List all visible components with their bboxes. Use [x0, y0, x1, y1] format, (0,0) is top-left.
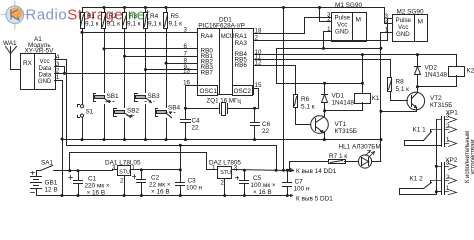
wire DD1 pin18 RA1 to M1 Pulse — [259, 18, 327, 34]
+12V line to DA1 — [58, 170, 113, 172]
capacitor C1 — [69, 171, 83, 198]
svg-text:22 мк ×: 22 мк × — [149, 182, 171, 189]
svg-text:SB4: SB4 — [168, 104, 181, 111]
wire +12V riser to DA2 input — [70, 153, 213, 171]
pushbutton SB1 — [94, 94, 110, 140]
svg-text:K2: K2 — [467, 68, 474, 75]
XP2 pin 3 — [437, 164, 457, 170]
relay coil K1 — [355, 94, 371, 104]
relay contact K1.1 — [405, 130, 442, 146]
wire DD1 pin11 RB5 to R8 — [259, 60, 391, 78]
resistor R5 — [164, 6, 168, 108]
svg-text:K1 2: K1 2 — [410, 175, 424, 182]
svg-text:1: 1 — [56, 74, 60, 81]
XP1 pin 3 — [437, 117, 457, 123]
svg-text:2: 2 — [120, 179, 124, 185]
switch SA1 — [37, 166, 58, 171]
resistor R4 — [144, 6, 148, 93]
capacitor C7 — [283, 169, 292, 197]
svg-text:C1: C1 — [88, 176, 97, 183]
wire OSC1 to crystal — [186, 108, 220, 110]
svg-text:VT1: VT1 — [335, 121, 347, 128]
svg-text:STU: STU — [119, 170, 130, 176]
relay coil K2 — [449, 67, 465, 77]
svg-text:MCU: MCU — [221, 34, 235, 40]
svg-text:5,1 к: 5,1 к — [396, 86, 410, 93]
svg-text:C3: C3 — [188, 178, 197, 185]
svg-text:DA1 L78L05: DA1 L78L05 — [105, 159, 141, 166]
wire XP1 pin3 to XP2 pin3 — [436, 120, 438, 195]
module A1 box — [21, 54, 56, 90]
wire DD1 pin2 RA3 to M2 Pulse — [259, 19, 389, 41]
XP2 pin 1 — [445, 190, 457, 195]
svg-text:RA4: RA4 — [201, 33, 214, 40]
wire A1 Vcc pin4 to +5V riser — [61, 60, 67, 146]
crystal ZQ1 — [220, 103, 228, 116]
XP1 pin 1 — [445, 141, 457, 147]
svg-text:Vcc: Vcc — [337, 22, 347, 29]
DA2 +5V output line — [233, 170, 289, 171]
svg-text:× 16 В: × 16 В — [151, 189, 170, 196]
svg-text:R5: R5 — [171, 13, 180, 20]
wire HL1 riser — [289, 162, 291, 171]
svg-text:100 н: 100 н — [294, 186, 310, 193]
svg-text:SA1: SA1 — [41, 160, 54, 167]
svg-text:GND: GND — [396, 31, 410, 38]
svg-text:9,1 к: 9,1 к — [169, 21, 183, 28]
wire R5 to DD1 pin8 RB2 — [167, 63, 198, 65]
capacitor C6 — [251, 107, 260, 141]
servo gnd bus — [277, 48, 381, 50]
wire R3 to DD1 pin7 RB1 — [125, 56, 198, 58]
svg-text:RX: RX — [23, 60, 33, 67]
svg-text:9,1 к: 9,1 к — [107, 21, 121, 28]
minus bottom rail — [37, 195, 288, 197]
voltage regulator DA2 — [213, 167, 237, 198]
pushbutton SB2 — [114, 109, 131, 140]
svg-text:Pulse: Pulse — [396, 17, 412, 24]
wire M2 GND long vertical to gnd and LED line — [381, 33, 389, 162]
wire +5V rail end to M2 Vcc — [383, 8, 389, 24]
voltage regulator DA1 — [113, 166, 136, 198]
arrow to pin14 DD1 — [289, 169, 294, 172]
pushbutton SB4 — [156, 109, 172, 140]
servo module M2 box — [393, 15, 428, 42]
svg-text:1N4148: 1N4148 — [425, 71, 448, 78]
resistor R8 — [388, 78, 392, 92]
capacitor C5 — [236, 171, 249, 198]
capacitor C2 — [133, 168, 146, 197]
svg-text:6: 6 — [184, 43, 188, 50]
svg-text:4: 4 — [56, 54, 60, 61]
svg-text:1N4148: 1N4148 — [332, 100, 355, 107]
svg-text:13: 13 — [183, 68, 190, 75]
svg-text:Pulse: Pulse — [335, 15, 351, 22]
MCU DD1 box — [198, 29, 254, 95]
svg-text:22: 22 — [262, 128, 270, 135]
arrow to pin5 DD1 — [288, 195, 293, 197]
XP2 pin 2 — [431, 178, 457, 184]
svg-text:C5: C5 — [253, 175, 262, 182]
svg-text:Data: Data — [39, 72, 52, 78]
resistor R1 — [81, 8, 85, 105]
svg-text:22: 22 — [192, 125, 200, 132]
svg-text:VD1: VD1 — [332, 93, 345, 100]
resistor R2 — [102, 6, 106, 93]
pushbutton SB3 — [135, 94, 152, 140]
svg-text:STU: STU — [220, 170, 231, 176]
battery GB1 — [31, 171, 42, 196]
transistor VT1 — [311, 111, 329, 142]
LED row line — [290, 161, 381, 163]
wire R6 to VT1 base — [296, 108, 311, 125]
node HL1 feed riser — [288, 169, 291, 172]
svg-text:K1 1: K1 1 — [413, 127, 427, 134]
+5V#1 distribution line — [67, 146, 277, 171]
wire crystal to OSC2 riser — [228, 89, 259, 109]
svg-text:C2: C2 — [151, 175, 160, 182]
svg-text:15: 15 — [255, 82, 262, 89]
DA1 +5V output line — [136, 169, 181, 171]
switch S1 — [78, 105, 84, 140]
wire A1 data bus to DD1 pin13 — [63, 73, 198, 75]
svg-text:12 В: 12 В — [45, 187, 58, 194]
svg-text:WA1: WA1 — [3, 40, 17, 47]
LED HL1 — [358, 151, 374, 169]
svg-text:C6: C6 — [262, 121, 271, 128]
antenna WA1 — [6, 47, 21, 70]
DD1 pin16 OSC1 wire — [186, 86, 198, 120]
svg-text:9,1 к: 9,1 к — [127, 21, 141, 28]
svg-text:S1: S1 — [86, 109, 94, 116]
svg-text:2: 2 — [221, 181, 225, 187]
M1 pin stubs — [327, 18, 332, 32]
svg-text:OSC1: OSC1 — [200, 88, 218, 95]
svg-text:Data: Data — [39, 66, 52, 72]
DD1 right pin stubs — [254, 34, 259, 66]
svg-text:устройствам: устройствам — [470, 139, 474, 174]
resistor R7 — [329, 160, 346, 164]
node C1 tap — [77, 169, 80, 172]
svg-text:1: 1 — [327, 27, 331, 33]
wire R8 to VT2 base — [391, 92, 408, 101]
diode VD1 — [322, 84, 328, 111]
svg-text:9,1 к: 9,1 к — [85, 21, 99, 28]
svg-text:× 16 В: × 16 В — [87, 190, 106, 197]
svg-text:SB1: SB1 — [107, 93, 120, 100]
svg-text:× 16 В: × 16 В — [253, 189, 272, 196]
capacitor C3 — [176, 170, 185, 198]
svg-text:R8: R8 — [396, 79, 405, 86]
wire DD1 pin12 RB6 to R6 — [259, 66, 296, 95]
svg-text:RB6: RB6 — [235, 62, 248, 69]
svg-text:GND: GND — [335, 29, 349, 36]
wire R4 to DD1 pin9 RB3 — [146, 69, 198, 71]
DD1 left pin stubs — [193, 32, 198, 34]
wire A1 GND pin1 down — [62, 81, 64, 196]
node LED line to M2 gnd vertical — [380, 160, 382, 162]
svg-text:OSC2: OSC2 — [234, 88, 252, 95]
svg-text:GB1: GB1 — [45, 180, 58, 187]
node DA2 feed riser — [68, 169, 71, 172]
wire R2 to DD1 pin6 RB0 — [105, 48, 198, 50]
wire K2 bottom to VT2 collector — [418, 76, 457, 87]
relay contact K1.2 — [400, 181, 442, 195]
M2 pin stubs — [389, 19, 393, 33]
node data tie junction — [63, 72, 66, 75]
logo watermark RadioStorage.net — [1, 1, 151, 29]
wire DA1 output riser to +5V#1 line — [180, 146, 182, 170]
wire branch down to relay K1 — [362, 55, 364, 94]
diode VD2 — [415, 55, 421, 87]
transistor VT2 — [380, 87, 425, 113]
capacitor C4 — [181, 120, 191, 142]
svg-text:M1 SG90: M1 SG90 — [335, 2, 362, 9]
node A1 gnd at button rail — [61, 138, 64, 141]
svg-text:100 мк ×: 100 мк × — [251, 182, 276, 189]
svg-text:R2: R2 — [109, 13, 118, 20]
A1 pin stubs — [55, 60, 63, 81]
OSC2 sub-box — [233, 86, 253, 96]
svg-text:9,1 к: 9,1 к — [148, 21, 162, 28]
XP1 pin 2 — [431, 127, 457, 133]
svg-text:К выв 5 DD1: К выв 5 DD1 — [296, 195, 333, 202]
svg-text:M: M — [356, 17, 362, 24]
node osc1 branch — [184, 107, 187, 110]
svg-text:R1: R1 — [87, 13, 96, 20]
svg-text:HL1 АЛ307БМ: HL1 АЛ307БМ — [339, 144, 381, 151]
svg-text:КТ315Б: КТ315Б — [430, 102, 452, 109]
wire A1 Data pin3 tie — [61, 67, 65, 74]
svg-text:Vcc: Vcc — [40, 59, 50, 65]
svg-text:RA3: RA3 — [235, 40, 248, 47]
svg-text:R6: R6 — [301, 96, 310, 103]
buttons ground rail — [63, 139, 381, 141]
svg-text:SB3: SB3 — [148, 93, 161, 100]
wire supply corner to K2 top — [456, 55, 458, 67]
svg-text:КТ315Б: КТ315Б — [335, 128, 357, 135]
svg-text:R7 1 к: R7 1 к — [329, 153, 347, 160]
+5V top rail — [83, 7, 383, 9]
wire R1 to DD1 pin3 RA4 — [83, 32, 198, 34]
relay K1 top line — [277, 83, 363, 85]
svg-text:К выв 14 DD1: К выв 14 DD1 — [296, 168, 337, 175]
svg-text:VD2: VD2 — [425, 64, 438, 71]
wire M1 GND down to gnd bus — [324, 32, 327, 49]
svg-text:C4: C4 — [192, 118, 201, 125]
resistor R6 — [294, 95, 298, 108]
+5V long riser top rail to DA2 output line — [283, 8, 285, 171]
svg-text:1: 1 — [212, 166, 216, 172]
svg-text:Vcc: Vcc — [398, 24, 408, 31]
svg-text:100 н: 100 н — [186, 185, 202, 192]
connector XP2 bracket — [442, 163, 445, 195]
wire K1 bottom to VT1 collector — [325, 103, 363, 111]
svg-text:K1: K1 — [372, 95, 380, 102]
OSC1 sub-box — [198, 86, 218, 96]
servo module M1 box — [332, 13, 367, 42]
svg-text:SB2: SB2 — [127, 107, 140, 114]
svg-text:R4: R4 — [150, 13, 159, 20]
wire DD1 pin10 RB4 relay supply line — [259, 54, 457, 56]
svg-text:1: 1 — [446, 186, 450, 192]
svg-text:220 мк ×: 220 мк × — [85, 183, 110, 190]
svg-text:3: 3 — [184, 27, 188, 34]
svg-text:C7: C7 — [295, 179, 304, 186]
svg-text:ZQ1 16 МГц: ZQ1 16 МГц — [207, 97, 242, 104]
svg-text:16: 16 — [183, 80, 190, 87]
svg-text:R3: R3 — [129, 13, 138, 20]
riser bus to relay K1 top line — [276, 49, 278, 84]
svg-text:M: M — [418, 19, 424, 26]
svg-text:XY-VR-5V: XY-VR-5V — [25, 48, 55, 55]
wire +5V rail to M1 Vcc — [320, 8, 327, 22]
svg-text:PIC16F628A-I/P: PIC16F628A-I/P — [198, 23, 245, 30]
svg-text:GND: GND — [38, 79, 52, 85]
svg-text:VT2: VT2 — [430, 95, 442, 102]
svg-text:RB7: RB7 — [201, 69, 214, 76]
svg-text:5,1 к: 5,1 к — [301, 103, 315, 110]
svg-text:M2 SG90: M2 SG90 — [397, 9, 424, 16]
resistor R3 — [123, 6, 127, 108]
connector XP1 bracket — [442, 117, 445, 147]
svg-text:3: 3 — [234, 166, 238, 172]
svg-text:2: 2 — [255, 35, 259, 42]
